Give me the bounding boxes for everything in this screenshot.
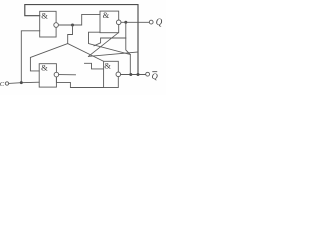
- gate D3 (NAND, top-right) box: [100, 11, 119, 33]
- svg-text:&: &: [104, 61, 111, 71]
- wire: D1 output to D3 input (with jog up): [58, 14, 100, 25]
- node: junction dot 2 on Qbar line: [137, 73, 140, 76]
- node: junction dot 1 on Qbar line: [129, 73, 132, 76]
- gate D3 output bubble: [116, 20, 121, 25]
- svg-text:Q: Q: [156, 17, 163, 27]
- svg-text:&: &: [41, 11, 48, 21]
- wire: Q-line dot down, diagonal onto dot1 vertical: [126, 22, 131, 54]
- wire: top feedback from Qbar line over the top to gate D1 input: [25, 5, 138, 73]
- wire: diagonal from D1 fan to D4 top corner: [68, 44, 104, 62]
- gate D4 output bubble: [116, 72, 121, 77]
- svg-text:&: &: [41, 62, 48, 72]
- node: junction dot on Q line: [124, 21, 127, 24]
- gate D1 (NAND, top-left) box: [40, 11, 56, 37]
- wire: D3 output to Q terminal: [121, 21, 149, 23]
- overline of Qbar: [152, 71, 157, 73]
- wire: cross-coupling diagonal from D3 corner down to SW corner: [88, 33, 118, 57]
- node: junction dot on C line: [20, 81, 23, 84]
- wire: cross-coupling from Qbar dot1 up and diagonally to D3 lower input: [89, 32, 131, 73]
- terminal: C input circle: [5, 82, 8, 85]
- svg-text:&: &: [103, 10, 110, 20]
- gate D2 output bubble: [54, 72, 59, 77]
- terminal: Q output circle: [149, 20, 153, 24]
- wire: D2 output line (fades out in scan): [59, 74, 76, 76]
- wire: D2 output lower path to D4 bottom corner: [56, 77, 103, 88]
- gate D4 (NAND, bottom-right) box: [104, 61, 119, 87]
- node: junction dot on D1 output: [71, 24, 74, 27]
- wire: C input line to gate D2: [9, 82, 40, 83]
- wire: shelf from Q-dot vertical left, stub onto diagonal: [94, 38, 126, 46]
- wire: D4 output to Qbar terminal: [121, 74, 146, 76]
- terminal: Qbar output circle: [146, 72, 150, 76]
- wire: shallow line from SW corner to tall feedback vertical: [88, 52, 138, 56]
- gate D1 output bubble: [54, 23, 59, 28]
- wire: C vertical up to gate D1 lower input: [21, 31, 39, 83]
- svg-text:Q: Q: [152, 71, 158, 81]
- wire: D1 output down-fan to D2 input (diagonal): [30, 25, 72, 71]
- gate D2 (NAND, bottom-left) box: [39, 64, 56, 87]
- wire: step into D4 input (left end faded in scan): [85, 63, 104, 69]
- svg-text:C: C: [0, 81, 5, 88]
